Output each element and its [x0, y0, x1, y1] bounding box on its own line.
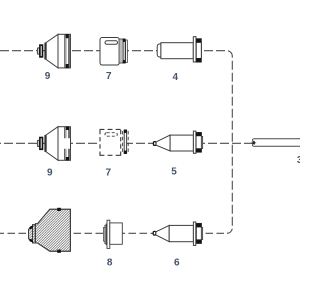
o-ring bar solid: [124, 130, 126, 154]
svg-text:3: 3: [297, 155, 300, 166]
retaining cap 7 (row 2, hidden-line view): [100, 129, 129, 155]
inner line: [64, 34, 66, 68]
tip: [153, 231, 156, 235]
torch body stub 3 (right edge, broken view): [252, 139, 300, 147]
centerline row 3: [0, 232, 227, 234]
o-ring bar: [123, 39, 125, 63]
right cap: [126, 40, 128, 63]
dashed body outline: [100, 129, 122, 155]
electrode 4 (row 1): [157, 37, 201, 62]
flange: [193, 37, 196, 62]
o-ring: [196, 133, 201, 153]
o-ring section: [196, 39, 201, 62]
svg-text:4: 4: [173, 72, 179, 83]
svg-text:9: 9: [45, 71, 51, 82]
svg-text:7: 7: [106, 167, 112, 178]
flange: [193, 131, 196, 153]
right cap: [70, 127, 71, 161]
cylinder: [58, 127, 71, 161]
o-ring dots: [66, 126, 69, 130]
cone: [46, 34, 58, 68]
flange: [193, 222, 195, 245]
shield cap 9 (row 1): [37, 34, 70, 68]
nozzle 6 (row 3): [153, 222, 202, 245]
dashed step line: [122, 131, 124, 154]
svg-text:6: 6: [174, 258, 180, 269]
dark ring: [40, 45, 43, 57]
cone: [156, 135, 170, 151]
retaining cap 7 (row 1): [100, 38, 127, 66]
right small edge: [201, 43, 203, 59]
right small edge: [201, 137, 202, 149]
dome: [157, 44, 161, 57]
svg-text:7: 7: [106, 71, 112, 82]
slot: [105, 41, 118, 45]
centerline row 1 with corner down to row 3: [0, 51, 232, 234]
right cap: [69, 34, 71, 68]
cylinder: [170, 135, 193, 151]
o-ring lines: [65, 34, 67, 68]
body cylinder: [161, 43, 193, 59]
svg-text:9: 9: [47, 167, 53, 178]
dashed right cap: [127, 131, 129, 153]
svg-text:5: 5: [171, 167, 177, 178]
nub: [37, 140, 39, 146]
centerline row 2: [0, 142, 253, 144]
o-ring dots: [65, 34, 68, 38]
nozzle 5 (row 2): [153, 131, 202, 153]
body fill: [100, 129, 121, 155]
right small edge: [201, 228, 202, 240]
cylinder: [169, 225, 193, 241]
tall bar: [44, 43, 46, 60]
cylinder: [58, 34, 71, 68]
tip: [153, 142, 156, 146]
cone: [156, 225, 169, 241]
svg-text:8: 8: [107, 258, 113, 269]
cone: [46, 127, 58, 161]
black dots: [57, 208, 61, 211]
right step: [119, 39, 123, 63]
cap 8 (row 3): [104, 220, 123, 248]
o-ring: [196, 223, 201, 243]
tall bar: [44, 135, 46, 152]
shield section (row 3, hatched): [29, 208, 71, 253]
hidden inner lines (top/bottom segments): [64, 127, 66, 161]
nub: [37, 48, 39, 54]
dashed slot: [105, 133, 117, 137]
body: [100, 38, 119, 66]
dark ring: [40, 138, 43, 150]
shield cap 9 (row 2): [37, 126, 70, 160]
